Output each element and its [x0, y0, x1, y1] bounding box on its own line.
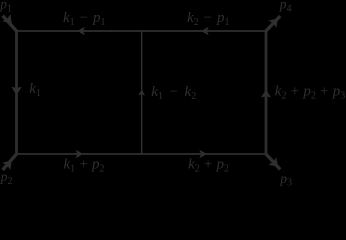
arrowhead bottom-right segment (right-pointing): [199, 150, 206, 159]
arrowhead leg p3 (outgoing, down-right): [268, 157, 278, 167]
svg-text:k1 − p1: k1 − p1: [63, 10, 106, 28]
wire right edge: [265, 31, 268, 154]
svg-text:k2 − p1: k2 − p1: [187, 10, 230, 28]
wire top edge: [17, 30, 267, 32]
wire external leg p3: [266, 154, 280, 169]
arrowhead bottom-left segment (right-pointing): [76, 150, 83, 159]
wire bottom edge: [17, 153, 267, 155]
arrowhead top-right segment (left-pointing): [202, 27, 209, 36]
svg-text:k2 + p2: k2 + p2: [188, 157, 229, 175]
svg-text:k1 + p2: k1 + p2: [64, 157, 105, 175]
wire external leg p2: [3, 154, 17, 170]
arrowhead middle vertical (up-pointing): [138, 89, 145, 95]
arrowhead leg p4 (outgoing, up-right): [268, 18, 278, 28]
wire external leg p4: [266, 16, 280, 31]
wire external leg p1: [3, 16, 17, 31]
arrowhead left edge (down-pointing): [11, 87, 21, 96]
arrowhead top-left segment (left-pointing): [78, 27, 85, 36]
arrowhead leg p2 (toward box, up-right): [2, 160, 12, 170]
arrowhead leg p1 (toward box, down-right): [2, 14, 12, 24]
wire left edge: [15, 31, 18, 154]
wire middle vertical: [141, 31, 143, 154]
arrowhead right edge (up-pointing): [261, 90, 271, 98]
